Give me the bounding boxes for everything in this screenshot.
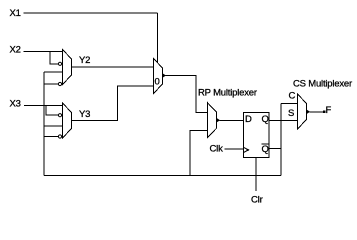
wire Y3 to middle mux input 2 — [72, 86, 154, 121]
bubble mux2 input 4 — [58, 135, 61, 138]
svg-text:Q: Q — [262, 114, 269, 125]
wire RP mux output to D input — [220, 119, 244, 121]
clock triangle — [244, 147, 249, 152]
wire F output — [310, 111, 325, 113]
svg-text:Clr: Clr — [251, 195, 263, 206]
mux1 (Y2) body — [63, 50, 72, 85]
wire X2 to mux1 input 1 — [24, 50, 63, 52]
wire X3 branch to mux2 input 2 — [46, 106, 58, 116]
wire Y2 to middle mux input 1 — [72, 66, 154, 68]
svg-text:0: 0 — [155, 77, 160, 88]
svg-text:X2: X2 — [10, 45, 21, 56]
wire X1 horizontal — [24, 12, 158, 14]
wire X1 vertical into middle mux select — [157, 13, 159, 69]
wire feedback bottom — [44, 175, 281, 177]
mux2 (Y3) body — [63, 103, 72, 138]
svg-text:Clk: Clk — [210, 144, 224, 155]
bubble mux1 input 2 — [58, 62, 61, 65]
wire feedback riser left — [43, 72, 45, 176]
wire Clr vertical — [255, 158, 257, 192]
flip-flop U1 body — [244, 113, 270, 158]
RP mux output arrow — [217, 118, 221, 123]
RP mux body — [208, 103, 217, 138]
bubble mux2 input 2 — [58, 114, 61, 117]
pin marker F — [323, 110, 326, 113]
svg-text:Y2: Y2 — [79, 55, 90, 66]
wire mux1 input 4 — [44, 83, 58, 85]
CS mux output arrow — [307, 110, 311, 115]
svg-text:RP Multiplexer: RP Multiplexer — [198, 87, 257, 98]
svg-text:S: S — [288, 108, 294, 119]
wire RP mux input 2 from feedback — [190, 131, 208, 176]
wire Q output to CS mux S input — [269, 120, 298, 122]
svg-text:F: F — [326, 105, 332, 116]
wire Qbar output — [269, 147, 281, 149]
overbar for Qbar — [262, 143, 269, 145]
wire mux2 input 3 — [44, 125, 63, 127]
middle mux output arrow — [163, 73, 167, 78]
svg-text:C: C — [289, 91, 296, 102]
svg-text:D: D — [245, 114, 252, 125]
clock triangle apex nub — [247, 149, 249, 151]
svg-text:Q: Q — [262, 144, 269, 155]
svg-text:X1: X1 — [10, 8, 21, 19]
wire mux2 input 4 — [44, 136, 58, 138]
wire mux1 input 3 — [44, 71, 63, 73]
middle mux body — [154, 59, 163, 94]
bubble mux1 input 4 — [58, 82, 61, 85]
svg-text:Y3: Y3 — [79, 109, 90, 120]
CS mux body — [298, 94, 307, 129]
wire middle mux output to RP mux input 1 — [166, 76, 208, 113]
wire C input — [281, 103, 298, 105]
wire Clk — [225, 148, 244, 150]
wire Qbar riser — [280, 104, 282, 176]
wire X3 to mux2 input 1 — [24, 105, 63, 107]
svg-text:CS Multiplexer: CS Multiplexer — [293, 79, 352, 90]
wire X2 branch to mux1 input 2 — [50, 51, 58, 64]
svg-text:X3: X3 — [10, 98, 21, 109]
